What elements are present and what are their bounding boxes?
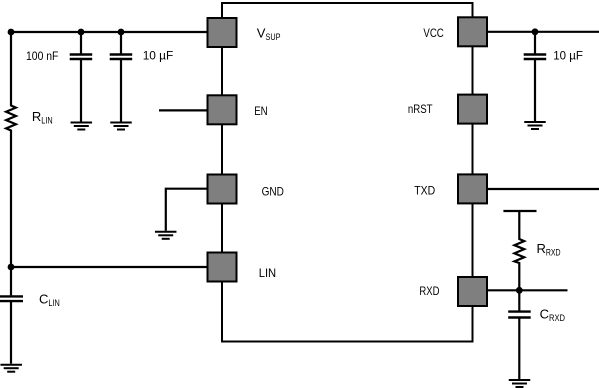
svg-text:TXD: TXD xyxy=(414,183,435,197)
svg-text:10 µF: 10 µF xyxy=(553,48,583,62)
svg-text:RXD: RXD xyxy=(419,284,439,298)
svg-text:LIN: LIN xyxy=(259,266,277,280)
svg-text:EN: EN xyxy=(254,104,267,118)
svg-text:nRST: nRST xyxy=(408,102,433,116)
svg-text:100 nF: 100 nF xyxy=(26,49,58,63)
svg-text:GND: GND xyxy=(262,185,285,199)
svg-text:10 µF: 10 µF xyxy=(143,48,174,62)
svg-text:VCC: VCC xyxy=(423,26,444,40)
